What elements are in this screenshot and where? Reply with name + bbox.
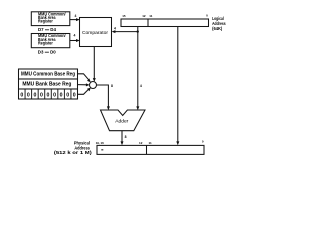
label D3-D0 bbox=[38, 50, 56, 55]
svg-text:(64K): (64K) bbox=[212, 26, 223, 31]
physical address register (20-bit bar) bbox=[97, 145, 204, 154]
svg-text:MMU Common Base Reg: MMU Common Base Reg bbox=[21, 71, 75, 77]
svg-text:8: 8 bbox=[125, 135, 127, 139]
svg-text:MMU Bank Base Reg: MMU Bank Base Reg bbox=[22, 82, 71, 88]
svg-text:0: 0 bbox=[47, 93, 50, 99]
svg-text:4: 4 bbox=[114, 26, 116, 30]
svg-text:D4: D4 bbox=[50, 27, 56, 32]
svg-text:Register: Register bbox=[38, 19, 53, 24]
adder U2 bbox=[101, 110, 146, 131]
label Logical Address (64K) bbox=[212, 16, 226, 31]
svg-text:19, 16: 19, 16 bbox=[96, 141, 104, 145]
svg-text:12: 12 bbox=[142, 14, 146, 18]
svg-text:4: 4 bbox=[75, 14, 77, 18]
register CBAR high nibble (CA field) bbox=[31, 11, 70, 25]
register MMU Common Base Reg bbox=[19, 69, 78, 79]
wire cells to selector bbox=[78, 88, 91, 95]
wire CA field to comparator bbox=[70, 14, 80, 21]
svg-text:11: 11 bbox=[149, 141, 153, 145]
svg-text:0: 0 bbox=[33, 93, 36, 99]
junction node bbox=[137, 30, 139, 32]
svg-text:D7: D7 bbox=[38, 27, 44, 32]
svg-text:4: 4 bbox=[140, 84, 142, 88]
svg-text:11: 11 bbox=[149, 14, 153, 18]
svg-text:0: 0 bbox=[40, 93, 43, 99]
svg-text:0: 0 bbox=[66, 93, 69, 99]
register MMU Bank Base Reg bbox=[19, 79, 78, 89]
wire branch to comparator input bbox=[112, 26, 138, 33]
logical address register (16-bit bar) bbox=[121, 19, 209, 27]
selector node (mux circle) bbox=[90, 82, 97, 89]
svg-text:12: 12 bbox=[139, 141, 143, 145]
svg-text:4: 4 bbox=[74, 34, 76, 38]
wire logical A11-A0 to physical address bar bbox=[176, 27, 179, 146]
svg-text:D3: D3 bbox=[38, 50, 44, 55]
svg-text:0: 0 bbox=[60, 93, 63, 99]
svg-text:Register: Register bbox=[38, 41, 53, 46]
wire logical A15-A12 down from bar bbox=[137, 27, 139, 108]
svg-text:8: 8 bbox=[111, 84, 113, 88]
wire BBR to selector bbox=[78, 83, 90, 86]
svg-text:0: 0 bbox=[20, 93, 23, 99]
label Physical Address (512 k or 1 M) bbox=[54, 141, 93, 155]
wire BA field to comparator bbox=[70, 34, 80, 42]
label D7-D4 bbox=[38, 27, 56, 32]
svg-text:(512 k or 1 M): (512 k or 1 M) bbox=[54, 150, 93, 155]
register CBAR low nibble (BA field) bbox=[31, 33, 70, 48]
svg-text:15: 15 bbox=[122, 14, 126, 18]
svg-text:D0: D0 bbox=[50, 50, 56, 55]
register reset value cells 00000000 bbox=[19, 89, 78, 99]
svg-text:0: 0 bbox=[53, 93, 56, 99]
arrowhead into adder right input bbox=[136, 106, 139, 110]
svg-text:Adder: Adder bbox=[115, 119, 128, 125]
svg-text:0: 0 bbox=[73, 93, 76, 99]
wire adder output to physical address bar bbox=[121, 131, 127, 146]
wire CBR to selector bbox=[78, 74, 91, 82]
comparator U1 bbox=[80, 18, 112, 47]
wire selector to adder bbox=[97, 84, 113, 110]
wire comparator to selector bbox=[93, 47, 96, 82]
svg-text:Comparator: Comparator bbox=[82, 30, 108, 36]
svg-text:0: 0 bbox=[27, 93, 30, 99]
